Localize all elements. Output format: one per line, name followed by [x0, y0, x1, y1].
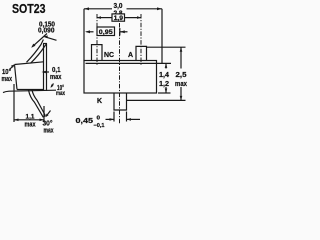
dim 1,1 max left extension	[13, 84, 15, 122]
dim 0,45 left extension	[113, 112, 115, 122]
side view lower lead inner curve	[32, 90, 45, 116]
lead 1 (NC) outline	[92, 45, 103, 61]
arrow 30deg max	[46, 111, 50, 117]
side view body bottom edge	[17, 89, 44, 91]
dim 2,5 bottom extension	[127, 99, 186, 101]
svg-text:max: max	[44, 128, 54, 135]
box 0,95	[97, 27, 115, 36]
dim 0,45 arrow right	[127, 118, 141, 120]
side view lower lead tip cap	[43, 116, 45, 118]
dim 1,9 dimension line right	[125, 17, 142, 19]
svg-text:max: max	[56, 91, 65, 97]
side view upper lead outer curve	[27, 40, 44, 63]
svg-text:2,5: 2,5	[176, 72, 187, 79]
leader arrow lower (thickness dim)	[45, 37, 57, 41]
svg-text:SOT23: SOT23	[12, 2, 46, 16]
svg-text:1,1: 1,1	[26, 114, 35, 121]
side view body top edge	[15, 62, 44, 65]
svg-text:1,2: 1,2	[159, 81, 169, 88]
dim 0,45 arrow left	[106, 118, 115, 120]
svg-text:0,45: 0,45	[76, 118, 94, 125]
side view body left edge (10deg draft)	[15, 65, 18, 90]
dim 1,1 max dimension line	[14, 119, 44, 121]
dim 0,95 arrow right	[120, 31, 128, 33]
svg-text:30°: 30°	[43, 120, 53, 128]
lead K outline	[114, 93, 127, 110]
lead 2 centerline	[140, 14, 142, 66]
body inner top line / 1,4 top extension	[86, 62, 172, 64]
side view lead plane vertical	[46, 44, 48, 92]
dim 1,9 dimension line left	[97, 17, 113, 19]
side view lower lead outer curve	[29, 90, 44, 117]
arrow 10deg left	[10, 65, 14, 69]
dim 3,0 right extension	[161, 9, 163, 64]
dim 1,4 bottom extension	[158, 92, 171, 94]
side view upper lead inner curve	[31, 44, 47, 64]
svg-text:max: max	[50, 74, 62, 81]
svg-text:−0,1: −0,1	[94, 123, 105, 129]
dim 1,1 max right extension	[43, 106, 45, 122]
package centerline (dash-dot)	[119, 23, 121, 124]
dim 0,45 right extension	[126, 112, 128, 122]
dim 3,0 left extension	[83, 9, 85, 61]
lead 1 centerline	[96, 14, 98, 66]
svg-text:3,0: 3,0	[114, 3, 123, 10]
leader arrow upper (thickness dim)	[32, 34, 47, 47]
svg-text:max: max	[2, 76, 13, 83]
box 1,9	[112, 14, 125, 21]
svg-text:max: max	[25, 121, 36, 128]
seating plane line	[3, 90, 56, 92]
svg-text:1,9: 1,9	[114, 15, 124, 22]
body outline top view	[84, 61, 157, 94]
svg-text:NC: NC	[104, 52, 114, 59]
svg-text:0: 0	[97, 116, 101, 122]
dim 1,4/1,2 dimension line	[165, 63, 167, 68]
dim 2,5 top extension	[147, 46, 186, 48]
svg-text:A: A	[128, 52, 133, 59]
dim 2,5 dimension line	[180, 47, 182, 68]
centerline stub (0,95 right end)	[119, 28, 121, 36]
svg-text:1,4: 1,4	[159, 72, 169, 79]
dim 3,0/2,8 dimension line	[84, 8, 112, 10]
dim 0,1 max arrow	[45, 71, 49, 73]
svg-text:0,95: 0,95	[99, 29, 113, 36]
side view body right edge / lead outer face	[43, 44, 45, 91]
dim 0,95 arrow left	[87, 31, 94, 33]
lead 2 (A) outline	[136, 46, 147, 60]
svg-text:max: max	[175, 81, 187, 88]
side view lead top cap	[43, 43, 47, 45]
svg-text:K: K	[97, 98, 102, 105]
arrow 10deg right	[51, 84, 53, 87]
